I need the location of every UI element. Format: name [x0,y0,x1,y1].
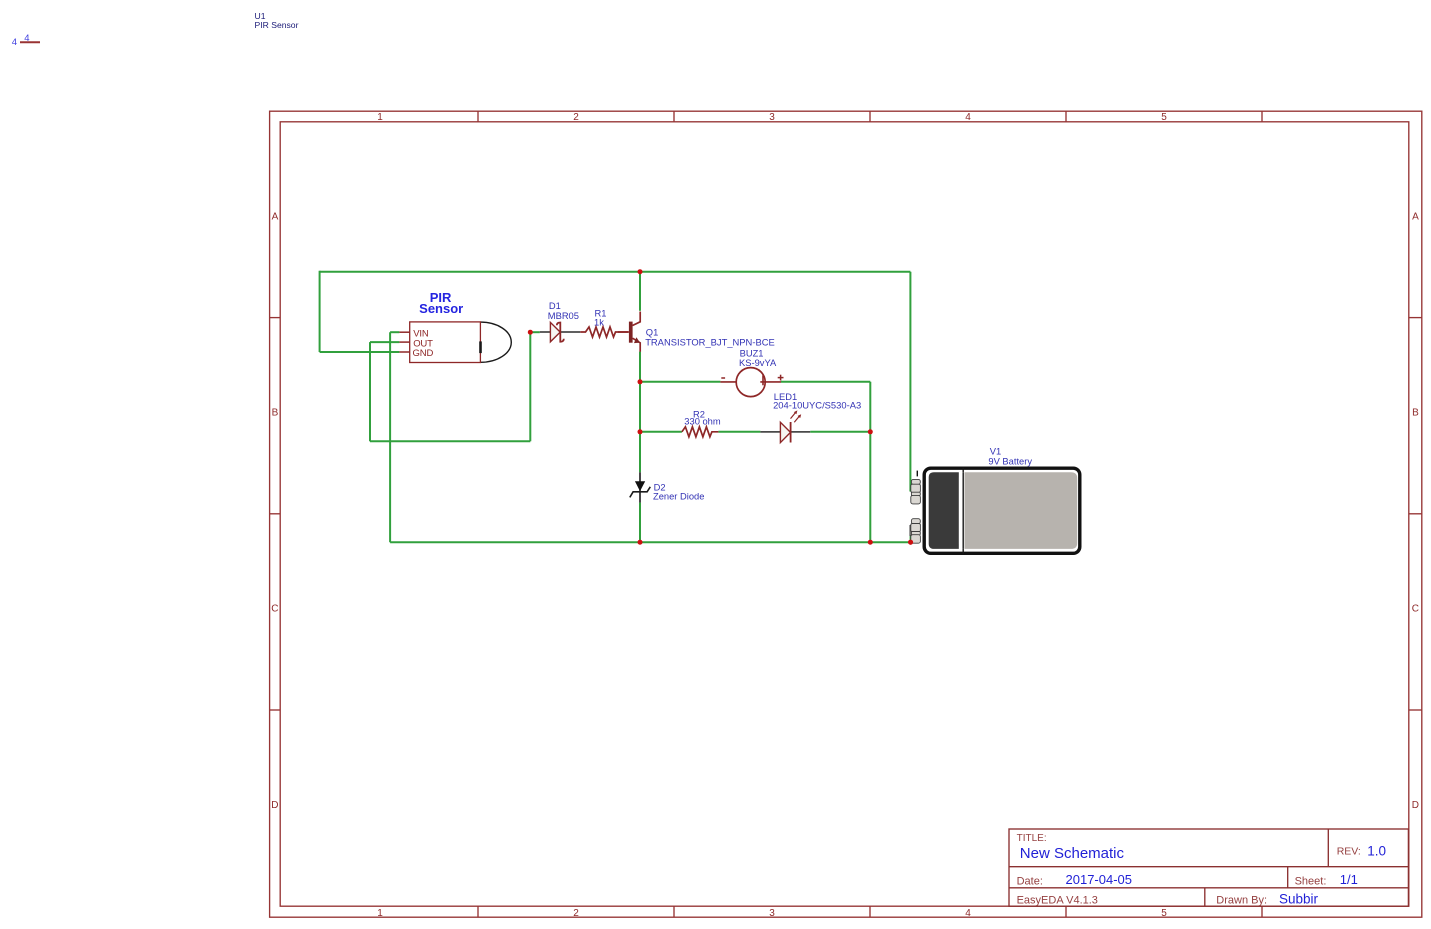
svg-text:Zener Diode: Zener Diode [653,491,704,501]
junction top rail / collector [638,269,643,274]
wire R2 left [640,431,682,433]
svg-text:PIR Sensor: PIR Sensor [255,20,299,30]
WIRES [320,271,911,543]
junction R2 branch [638,429,643,434]
svg-text:A: A [1412,212,1419,223]
wire R2 to LED [718,431,760,433]
label PIR Sensor [419,290,463,316]
wire VIN vertical [389,332,391,542]
diode D1 MBR05 [540,322,581,341]
svg-text:4: 4 [12,37,17,48]
svg-text:5: 5 [1161,112,1167,123]
stray pin wire [20,41,40,43]
wire right vertical [869,382,871,542]
junction battery minus (over terminal) [908,540,913,545]
svg-text:D: D [1412,800,1419,811]
frame row letters right [1412,212,1419,811]
svg-text:2: 2 [573,908,579,919]
svg-text:Subbir: Subbir [1279,891,1319,906]
svg-text:New Schematic: New Schematic [1020,845,1125,862]
wire battery plus vertical [909,272,911,492]
svg-text:B: B [272,407,279,418]
junction emitter / buzzer [638,379,643,384]
wire buzzer right [781,381,870,383]
svg-text:3: 3 [769,908,775,919]
wire OUT stub [370,341,399,343]
svg-text:3: 3 [769,112,775,123]
buzzer BUZ1 [720,368,783,397]
resistor R2 [682,427,719,437]
svg-text:1k: 1k [594,317,604,327]
svg-text:V1: V1 [990,446,1001,456]
title block texts [1017,833,1361,907]
junction D1 anode node [528,330,533,335]
svg-text:9V Battery: 9V Battery [988,457,1032,467]
wire Q1 collector to rail [639,272,641,311]
battery V1 [910,468,1080,554]
svg-text:C: C [271,604,278,615]
wire OUT vertical [369,342,371,441]
title block [1009,829,1408,906]
wire LED right [810,431,870,433]
wire bottom rail [390,541,911,543]
wire VIN stub [390,331,399,333]
svg-text:REV:: REV: [1337,846,1361,858]
junction dots [528,269,913,545]
svg-text:TITLE:: TITLE: [1017,833,1047,844]
junction LED right [868,429,873,434]
svg-text:4: 4 [965,908,971,919]
svg-text:1.0: 1.0 [1367,843,1386,858]
junction battery minus [908,540,913,545]
svg-text:KS-9vYA: KS-9vYA [739,358,777,368]
sheet frame [270,111,1422,917]
junction zener bottom [638,540,643,545]
svg-text:Drawn By:: Drawn By: [1216,895,1267,907]
svg-text:GND: GND [413,348,434,359]
frame row letters left [271,212,278,811]
svg-text:4: 4 [965,112,971,123]
wire OUT vertical 2 [529,332,531,441]
wire buzzer left [640,381,720,383]
wire battery minus stub [910,530,912,543]
wire left vertical (GND net) [319,271,321,352]
svg-text:204-10UYC/S530-A3: 204-10UYC/S530-A3 [773,399,861,410]
zener diode D2 [630,472,651,502]
svg-text:A: A [272,212,279,223]
svg-text:5: 5 [1161,908,1167,919]
wire below zener [639,503,641,543]
svg-text:Sensor: Sensor [419,301,463,316]
svg-text:EasyEDA V4.1.3: EasyEDA V4.1.3 [1017,895,1098,907]
LED LED1 [760,410,810,442]
resistor R1 [580,327,628,337]
svg-text:BUZ1: BUZ1 [740,348,764,358]
svg-text:TRANSISTOR_BJT_NPN-BCE: TRANSISTOR_BJT_NPN-BCE [645,336,775,347]
frame column numbers top [377,112,1167,123]
svg-text:C: C [1412,604,1419,615]
wire top rail [320,271,911,273]
wire OUT horizontal 2 [370,440,530,442]
svg-text:1/1: 1/1 [1340,872,1358,887]
svg-text:Sheet:: Sheet: [1295,876,1327,888]
frame column numbers bottom [377,908,1167,919]
svg-text:1: 1 [377,908,383,919]
svg-text:2017-04-05: 2017-04-05 [1066,872,1133,887]
wire D1 anode stub [530,331,540,333]
wire GND horizontal [320,351,400,353]
PIR sensor U1 [399,322,511,363]
junction right vertical bottom [868,540,873,545]
svg-text:B: B [1412,407,1419,418]
svg-text:Date:: Date: [1017,876,1043,888]
transistor Q1 [618,312,640,352]
svg-text:MBR05: MBR05 [548,311,579,321]
svg-text:2: 2 [573,112,579,123]
svg-text:D1: D1 [549,301,561,311]
svg-text:330 ohm: 330 ohm [684,417,721,427]
svg-text:D: D [271,800,278,811]
svg-text:1: 1 [377,112,383,123]
wire Q1 emitter down [639,352,641,473]
